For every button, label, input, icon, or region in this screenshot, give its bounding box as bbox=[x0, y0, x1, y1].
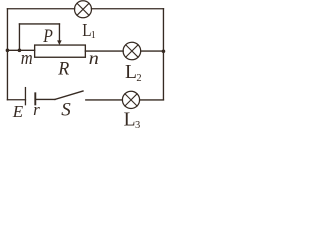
svg-text:m: m bbox=[21, 47, 33, 68]
svg-text:L: L bbox=[125, 62, 137, 83]
wire left rail bbox=[6, 9, 8, 100]
wire L3 to right rail bbox=[140, 99, 164, 101]
slider arrowhead bbox=[57, 40, 62, 45]
junction node at slider tap bbox=[18, 49, 22, 53]
lamp L2 bbox=[123, 42, 141, 60]
wire right rail bbox=[162, 9, 164, 100]
switch S blade bbox=[55, 91, 83, 99]
svg-text:1: 1 bbox=[91, 30, 96, 41]
svg-text:L: L bbox=[124, 109, 136, 130]
rheostat R box bbox=[35, 45, 86, 57]
wire middle branch left bbox=[7, 49, 34, 51]
svg-text:P: P bbox=[42, 26, 53, 46]
junction node on right rail bbox=[162, 49, 166, 53]
wire top left segment bbox=[7, 8, 74, 10]
svg-text:S: S bbox=[61, 99, 71, 120]
wire slider top run bbox=[19, 23, 59, 25]
wire slider riser bbox=[18, 24, 20, 50]
svg-text:R: R bbox=[57, 58, 69, 80]
wire slider arrow stem bbox=[58, 24, 60, 41]
svg-text:2: 2 bbox=[136, 73, 141, 84]
wire switch contact to L3 bbox=[86, 99, 123, 101]
svg-text:3: 3 bbox=[135, 120, 140, 131]
svg-text:E: E bbox=[12, 102, 24, 121]
wire L2 to right rail bbox=[141, 50, 164, 52]
lamp L1 bbox=[75, 1, 92, 18]
wire top right segment bbox=[92, 8, 164, 10]
lamp L3 bbox=[122, 91, 139, 108]
svg-text:n: n bbox=[89, 49, 99, 69]
junction node on left rail bbox=[6, 49, 10, 53]
wire box to L2 bbox=[85, 50, 123, 52]
battery E long plate bbox=[24, 88, 26, 105]
battery E short plate bbox=[34, 93, 36, 104]
wire bottom left bbox=[7, 99, 25, 101]
svg-text:r: r bbox=[33, 100, 40, 119]
wire battery to switch pivot bbox=[35, 98, 55, 100]
